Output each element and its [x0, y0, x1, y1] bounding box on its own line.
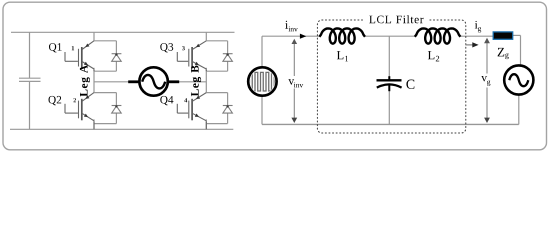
capacitor C	[377, 76, 402, 91]
diode D3	[223, 54, 233, 62]
label Q4	[160, 96, 173, 105]
wire: leg A bus	[94, 32, 116, 129]
wire: Q1 top horizontal to diode	[94, 40, 116, 42]
label v_g	[481, 76, 487, 81]
capacitor Cdc plates	[19, 78, 41, 81]
arrow i_inv on wire	[300, 34, 306, 39]
label Z_g	[498, 48, 505, 57]
transistor Q1 (IGBT)	[65, 41, 94, 71]
impedance Zg (black box, blue border)	[493, 32, 513, 39]
label Q2	[49, 96, 62, 105]
v_inv measurement arrows	[293, 41, 295, 120]
label i_inv	[285, 21, 288, 29]
transistor Q4 (IGBT)	[177, 93, 206, 130]
transistor Q2 (IGBT)	[65, 93, 94, 130]
wire: Q2 top horizontal to diode	[94, 92, 116, 94]
wire: Q4 bottom horizontal to diode	[206, 123, 227, 125]
wire: Q4 top horizontal to diode	[206, 92, 227, 94]
wire: Q3 bottom horizontal to diode	[206, 70, 227, 72]
wire: capacitor branch	[388, 36, 390, 76]
label Leg B (rotated)	[191, 66, 201, 97]
pin number 1 (Q1 gate)	[72, 46, 74, 50]
wire: from L2 to Zg	[460, 35, 494, 37]
wire: D2 branch	[115, 93, 117, 106]
wire: inverter source leads	[262, 35, 521, 124]
grid source v_g (bold circle with sine)	[504, 65, 533, 94]
wire: between L1 and L2	[365, 35, 416, 37]
wire: leg B bus	[206, 32, 227, 129]
pin number 3 (Q3 gate)	[182, 46, 185, 50]
label Q3	[160, 43, 173, 52]
wire: Q2 bottom horizontal to diode	[94, 123, 116, 125]
wire: top wire from source to L1	[262, 35, 320, 37]
label C	[406, 80, 414, 89]
LCL filter dashed box	[317, 20, 465, 133]
diode D4	[223, 106, 233, 114]
label Q1	[49, 43, 62, 52]
wire: Q3 top horizontal to diode	[206, 40, 227, 42]
wire: D3 branch	[227, 41, 229, 54]
wire: below grid source	[518, 95, 520, 125]
inductor L2	[415, 28, 461, 43]
arrow i_g	[465, 44, 472, 46]
label L1	[337, 51, 344, 59]
pin number 4 (Q4 gate)	[184, 98, 187, 102]
wire: DC- bottom rail	[10, 128, 233, 130]
figure frame	[3, 2, 547, 150]
wire: Q1 bottom horizontal to diode	[94, 70, 116, 72]
wire: from Zg to grid corner	[513, 34, 521, 36]
inductor L1	[319, 28, 365, 43]
diode D1	[112, 54, 122, 62]
v_g measurement arrows	[486, 41, 488, 120]
label v_inv	[288, 79, 294, 84]
wire: AC source to leg B midpoint	[179, 81, 207, 83]
pin number 2 (Q2 gate)	[74, 98, 77, 102]
PWM source U_inv (circle with pulses)	[248, 67, 276, 95]
wire: bottom rail	[262, 123, 519, 125]
label i_g	[475, 21, 478, 29]
label Leg A (rotated)	[80, 65, 90, 97]
transistor Q3 (IGBT)	[177, 41, 206, 71]
wire: D4 branch	[227, 93, 229, 106]
AC output source (bold circle with sine)	[128, 67, 179, 95]
label L2	[428, 51, 435, 59]
wire: DC-link left branch lower	[29, 81, 31, 129]
wire: leg A midpoint to AC source	[94, 81, 129, 83]
wire: DC+ top rail	[11, 31, 235, 33]
diode D2	[112, 106, 122, 114]
wire: D1 branch	[115, 41, 117, 54]
wire: DC-link left branch upper	[29, 32, 31, 78]
label LCL Filter	[369, 15, 423, 23]
